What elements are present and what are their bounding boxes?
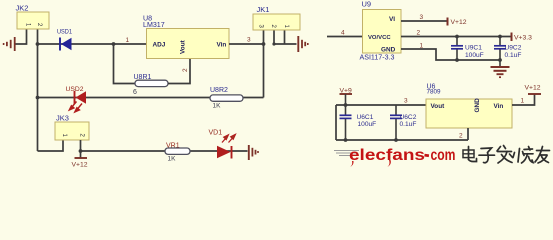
ground GND2 (right of JK1) [298, 36, 308, 52]
capacitor U6C1 [340, 105, 377, 140]
wire: rail2 [38, 97, 264, 99]
svg-text:VD1: VD1 [209, 130, 223, 137]
pin number 2 (U6 GND) [459, 133, 463, 140]
svg-text:V+3.3: V+3.3 [514, 35, 532, 42]
wire: U9 pin4 stub [327, 36, 362, 38]
connector JK1 [253, 5, 300, 30]
svg-text:1: 1 [420, 43, 424, 50]
svg-text:U6C1: U6C1 [357, 114, 374, 121]
pin number 2 (U8 Vout) [182, 68, 189, 72]
node J: junction V+9 / rail [344, 103, 348, 107]
LED USD2 [66, 86, 87, 112]
power V+12 flag (bottom) [72, 158, 88, 169]
wire: rail3 [81, 150, 248, 152]
svg-text:100uF: 100uF [465, 52, 484, 59]
wire: GND1 to JK2 pin1 [16, 29, 27, 44]
svg-text:2: 2 [182, 68, 189, 72]
svg-text:1K: 1K [213, 103, 222, 110]
wire: U9 VO pin2 rail [401, 36, 512, 38]
svg-text:1: 1 [126, 37, 130, 44]
capacitor U6C2 [390, 105, 417, 140]
svg-text:LM317: LM317 [143, 21, 165, 29]
svg-text:ADJ: ADJ [153, 42, 166, 49]
svg-text:USD1: USD1 [57, 29, 72, 36]
pin number 2 (U9 VO) [417, 30, 421, 37]
svg-text:U8R2: U8R2 [210, 87, 228, 94]
svg-text:VO/VCC: VO/VCC [368, 35, 391, 41]
svg-text:1K: 1K [168, 156, 177, 163]
regulator U9 ASI117-3.3 [360, 0, 402, 62]
glyph zi [479, 148, 495, 163]
connector JK3 [55, 114, 89, 141]
glyph fa [497, 146, 513, 164]
svg-text:0.1uF: 0.1uF [505, 52, 522, 59]
svg-text:VI: VI [389, 16, 395, 23]
svg-text:U9: U9 [362, 0, 372, 9]
svg-text:com: com [431, 147, 456, 164]
diode USD1 [57, 29, 72, 51]
wire: JK3 pin2 stub [80, 140, 82, 158]
node H: junction U9C1 bottom [455, 58, 459, 62]
node C: junction JK1 pin3 [262, 42, 266, 46]
svg-text:3: 3 [404, 98, 408, 105]
glyph dian [463, 147, 477, 162]
node G: junction U9C2 top [498, 35, 502, 39]
svg-text:V+12: V+12 [451, 19, 467, 26]
power V+9 flag [340, 88, 353, 106]
chinese brand text 电子发烧友 [463, 146, 550, 164]
power V+3.3 flag [512, 33, 533, 42]
svg-text:1: 1 [521, 98, 525, 105]
wire: U8R1 to U8 Vout pin2 [168, 59, 190, 84]
pin number 3 (U8 Vin) [247, 37, 251, 44]
ground GND4 (below U9 caps, earth style) [491, 60, 510, 77]
wire: U9 VI pin3 [401, 20, 447, 22]
svg-text:JK2: JK2 [16, 4, 29, 13]
pin number 1 (U6 Vin) [521, 98, 525, 105]
ground GND3 (right of VD1) [249, 145, 258, 160]
wire: JK1 pins 1,2 to ground [273, 30, 296, 44]
pin number 3 (U6 Vout) [404, 98, 408, 105]
wire: U6 Vin to V+12 [512, 94, 535, 105]
connector JK2 [16, 4, 50, 30]
node L: junction U6C2 bottom [394, 138, 398, 142]
svg-text:U9C1: U9C1 [465, 45, 482, 52]
svg-text:2: 2 [417, 30, 421, 37]
svg-text:GND: GND [381, 47, 396, 54]
svg-text:7809: 7809 [427, 89, 442, 96]
node A: junction rail1/U8R1 drop [112, 42, 116, 46]
regulator U6 7809 [426, 84, 512, 129]
wire: JK1 pin3 stub down to rail2 [263, 30, 265, 98]
wire: U6 GND pin2 stub [467, 128, 469, 140]
svg-text:3: 3 [247, 37, 251, 44]
wire: U6 Vout rail [336, 104, 426, 106]
svg-text:JK1: JK1 [257, 5, 270, 14]
power V+12 flag (U6) [525, 85, 542, 95]
svg-text:U9C2: U9C2 [505, 45, 522, 52]
node D: junction rail2 / JK2 bus [36, 96, 40, 100]
glyph you [535, 147, 550, 164]
wire: U9 GND pin1 to cap rail [401, 49, 500, 60]
node F: junction U9C1 top [455, 35, 459, 39]
pin number 1 (U8 ADJ) [126, 37, 130, 44]
svg-text:JK3: JK3 [56, 114, 69, 123]
svg-text:GND: GND [474, 98, 481, 113]
svg-text:V+12: V+12 [525, 85, 541, 92]
svg-text:100uF: 100uF [358, 121, 377, 128]
node I: junction U9C2 bottom [498, 58, 502, 62]
svg-text:ASI117-3.3: ASI117-3.3 [360, 54, 395, 62]
resistor U8R1 [133, 74, 168, 96]
op-amp U8 LM317 regulator box [143, 15, 229, 59]
node B: junction JK2 pin2 / rail1 [36, 42, 40, 46]
LED VD1 [209, 130, 236, 159]
capacitor U9C2 [494, 37, 522, 61]
resistor U8R2 [210, 87, 243, 110]
svg-text:U6C2: U6C2 [400, 114, 417, 121]
power V+12 flag (U9) [448, 18, 467, 27]
svg-text:Vout: Vout [180, 39, 187, 54]
svg-text:Vin: Vin [217, 42, 227, 49]
resistor VR1 [165, 143, 190, 163]
pin number 3 (U9 VI) [420, 14, 424, 21]
elecfans.com logo [334, 147, 456, 167]
capacitor U9C1 [451, 37, 484, 61]
glyph shao [513, 147, 533, 164]
svg-text:3: 3 [420, 14, 424, 21]
ground GND1 (left of JK2) [4, 37, 15, 51]
node E: junction JK3 pin2 / rail3 [79, 149, 83, 153]
pin number 1 (U9 GND) [420, 43, 424, 50]
pin number 4 (U9) [341, 30, 345, 37]
svg-text:elecfans: elecfans [349, 147, 425, 164]
svg-text:2: 2 [459, 133, 463, 140]
node M: junction JK1 pin2 [272, 42, 275, 45]
node K: junction U6C1 bottom [344, 138, 348, 142]
svg-text:6: 6 [133, 89, 137, 96]
wire: drop to U8R1 [114, 44, 136, 84]
svg-text:Vin: Vin [494, 103, 504, 110]
wire: U8 Vin to JK1 pin3 [229, 43, 264, 45]
wire: rail1 JK2 to U8 ADJ [38, 43, 147, 45]
svg-text:4: 4 [341, 30, 345, 37]
wire: JK3 pin1 to bus [38, 140, 64, 151]
svg-text:Vout: Vout [431, 103, 446, 110]
wire: U6 bottom rail [336, 139, 468, 141]
wire: JK2 pin2 vertical bus [37, 29, 39, 151]
svg-text:0.1uF: 0.1uF [400, 121, 417, 128]
svg-text:V+12: V+12 [72, 162, 88, 169]
wire: left vertical U6 loop [335, 105, 337, 140]
